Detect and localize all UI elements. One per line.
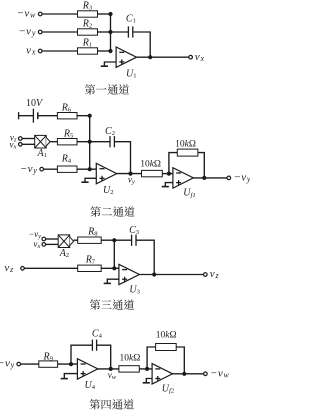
junction [108, 12, 112, 16]
wire [22, 139, 35, 145]
wire [42, 13, 78, 15]
resistor R9 [39, 351, 58, 367]
resistor R6 [57, 102, 77, 119]
wire output [193, 177, 227, 179]
wire [24, 267, 77, 269]
wire [98, 13, 111, 15]
capacitor C3 [129, 225, 140, 246]
capacitor C2 [105, 126, 115, 147]
junction [167, 172, 171, 176]
wire [44, 168, 58, 170]
wire [50, 141, 57, 143]
svg-text:10V: 10V [26, 98, 44, 109]
wire [74, 239, 78, 241]
wire feedback [133, 32, 150, 57]
capacitor C4 [92, 329, 103, 351]
wire feedback left [71, 345, 92, 364]
wire to C1 [111, 31, 129, 33]
junction [69, 362, 73, 366]
ground [101, 62, 116, 66]
node input vz [4, 262, 24, 274]
ground [61, 374, 78, 379]
wire [101, 267, 119, 269]
resistor 10k input [119, 353, 140, 372]
op-amp U3 [119, 264, 141, 295]
junction [148, 55, 152, 59]
resistor R7 [78, 254, 102, 271]
caption 第二通道 [90, 206, 134, 217]
junction [112, 266, 116, 270]
caption 第四通道 [90, 399, 134, 410]
svg-text:10kΩ: 10kΩ [175, 139, 196, 149]
node vw [108, 370, 117, 381]
node input vx [26, 45, 42, 57]
svg-text:10kΩ: 10kΩ [140, 159, 161, 169]
wire feedback [169, 153, 204, 178]
junction [112, 238, 116, 242]
wire feedback [136, 240, 154, 274]
wire to C3 [114, 239, 131, 241]
junction [128, 172, 132, 176]
wire [77, 141, 90, 143]
ground [143, 379, 152, 383]
node output -vy [227, 172, 251, 184]
node vy [128, 174, 135, 185]
junction [88, 140, 92, 144]
node output vz [204, 268, 220, 280]
wire feedback right [97, 345, 111, 369]
ground [81, 178, 96, 182]
junction [152, 272, 156, 276]
svg-text:10kΩ: 10kΩ [120, 353, 141, 363]
node input vx [33, 239, 45, 250]
op-amp U2 [96, 163, 116, 195]
battery 10V [19, 98, 44, 123]
resistor 10k feedback [156, 331, 177, 351]
svg-text:10kΩ: 10kΩ [156, 331, 177, 341]
wire summing bus [101, 240, 114, 268]
resistor 10k feedback [175, 139, 198, 156]
node output vx [189, 51, 205, 63]
resistor R4 [57, 154, 77, 173]
node input -vy [0, 358, 21, 370]
wire [77, 115, 90, 117]
node output -vw [204, 367, 230, 379]
wire [21, 363, 39, 365]
node input vz [10, 133, 22, 144]
wire [98, 31, 111, 33]
wire [162, 173, 173, 175]
wire [38, 115, 58, 117]
node input -vw [17, 8, 42, 20]
resistor R2 [78, 19, 98, 36]
wire output [137, 56, 189, 58]
node input vx [9, 140, 22, 151]
junction [108, 49, 112, 53]
wire feedback [114, 142, 130, 174]
resistor R5 [57, 128, 77, 145]
node input -vy [19, 26, 42, 38]
wire [46, 239, 59, 244]
caption 第一通道 [85, 84, 129, 95]
junction [88, 114, 92, 118]
resistor R8 [78, 227, 102, 244]
wire output [173, 373, 204, 375]
op-amp U4 [77, 359, 97, 392]
node input -vy [29, 229, 46, 241]
wire [58, 363, 78, 365]
junction [109, 367, 113, 371]
ground [104, 279, 119, 283]
wire output [117, 173, 142, 175]
junction [182, 372, 186, 376]
caption 第三通道 [90, 299, 134, 310]
op-amp Uf2 [152, 364, 175, 395]
wire summing bus [98, 14, 111, 51]
resistor 10k input [140, 159, 162, 176]
wire output [139, 274, 203, 276]
wire to C2 [90, 141, 110, 143]
wire [139, 368, 152, 370]
junction [145, 367, 149, 371]
ground [162, 183, 173, 187]
op-amp U1 [116, 47, 136, 79]
wire summing bus [77, 116, 96, 170]
resistor R3 [78, 1, 98, 18]
junction [108, 30, 112, 34]
multiplier A2 [58, 235, 73, 259]
node input -vy [21, 163, 44, 175]
op-amp Uf1 [173, 168, 196, 199]
wire [42, 50, 78, 52]
junction [88, 167, 92, 171]
junction [202, 176, 206, 180]
wire feedback [147, 347, 184, 374]
wire output [98, 368, 119, 370]
resistor R1 [78, 38, 98, 55]
multiplier A1 [35, 135, 50, 158]
capacitor C1 [126, 13, 136, 37]
wire [42, 31, 78, 33]
